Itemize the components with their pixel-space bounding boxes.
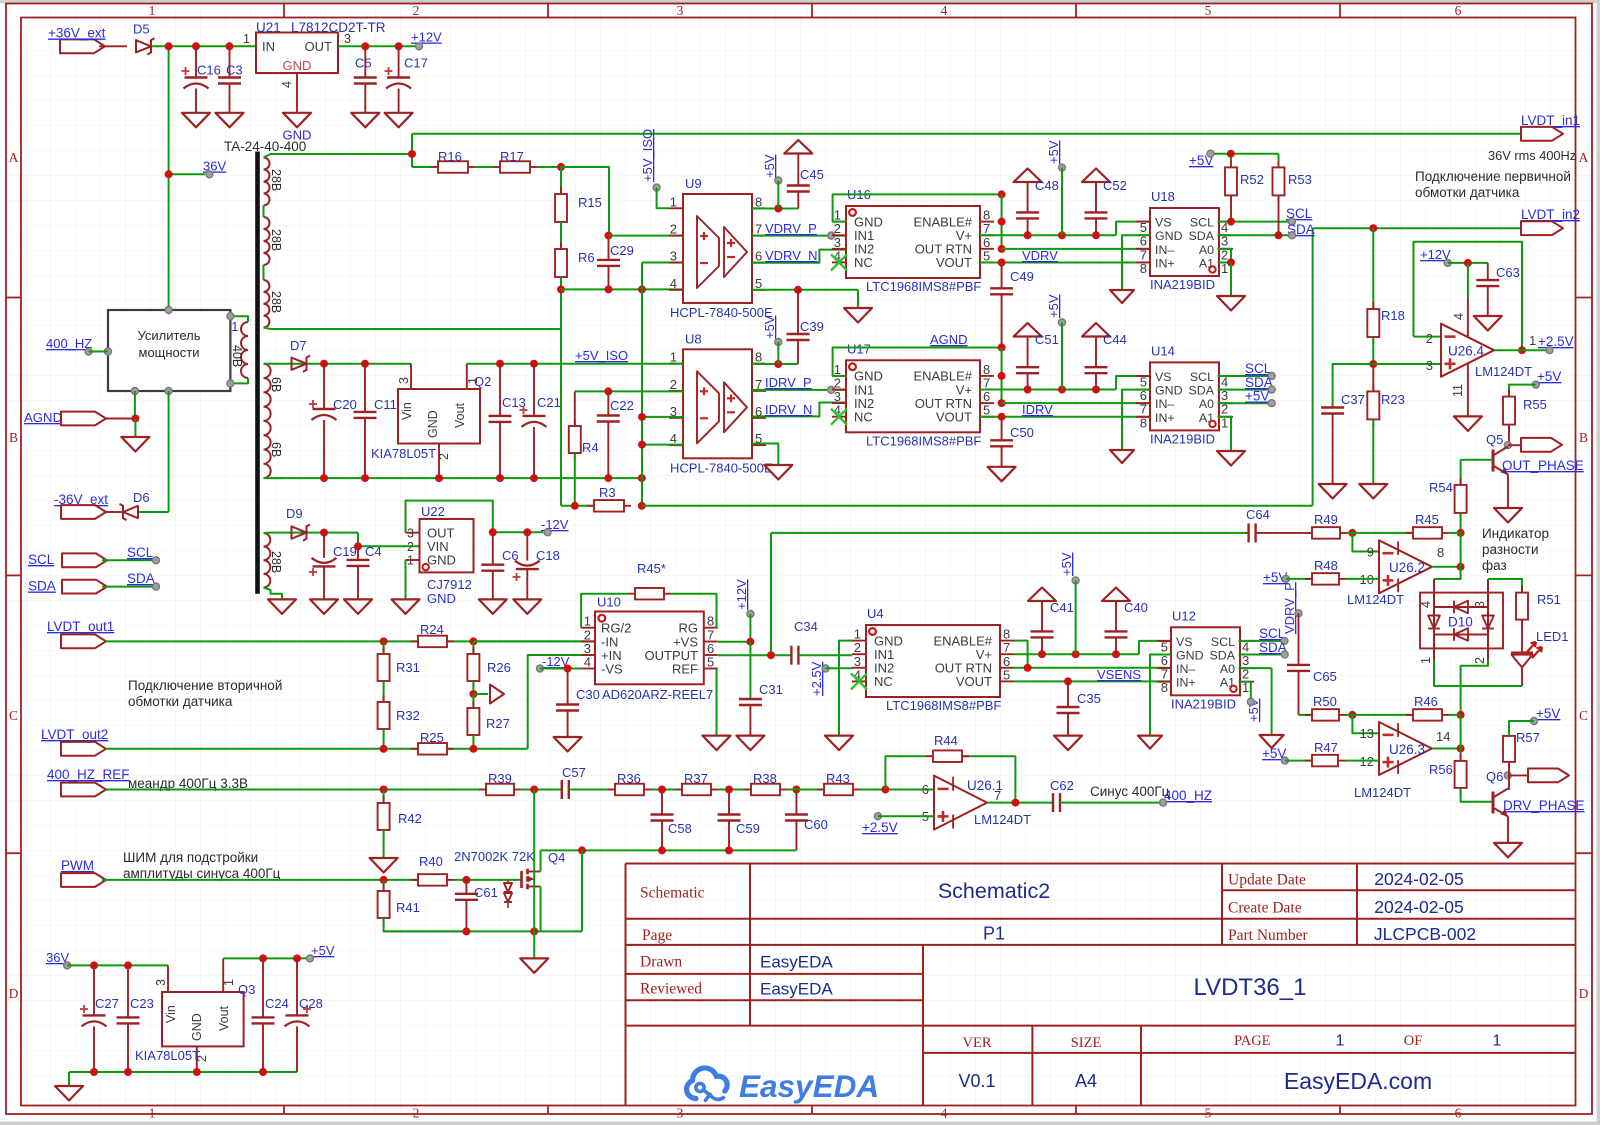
junction +VS <box>746 638 754 646</box>
wire R15 link <box>560 167 562 194</box>
junction C11 top <box>361 360 369 368</box>
svg-text:AGND: AGND <box>24 410 62 425</box>
wire Q4 source down <box>540 887 542 932</box>
ground Q6 <box>1494 843 1522 858</box>
svg-text:OUT: OUT <box>305 39 333 54</box>
svg-text:Vout: Vout <box>453 402 467 428</box>
junction R18 tap <box>1369 224 1377 232</box>
svg-text:U26.4: U26.4 <box>1448 344 1485 359</box>
svg-text:+5V_ISO: +5V_ISO <box>640 129 655 182</box>
junction C29 top <box>605 232 613 240</box>
resistor R57 <box>1508 729 1510 736</box>
svg-text:VS: VS <box>1176 635 1193 649</box>
resistor R38 <box>744 789 751 791</box>
wire U4 pin1 gnd <box>839 641 852 736</box>
svg-text:4: 4 <box>280 81 294 88</box>
resistor R52 <box>1230 160 1232 167</box>
wire -IN to U10 <box>473 640 595 642</box>
wire U14 GND to ground <box>1122 390 1150 450</box>
svg-text:D10: D10 <box>1448 615 1473 630</box>
svg-text:+36V_ext: +36V_ext <box>48 26 106 41</box>
svg-text:SDA: SDA <box>1189 229 1215 243</box>
wire U17 VOUT IDRV line <box>980 416 1150 418</box>
capacitor C4 <box>357 546 359 560</box>
ground under C17 <box>385 113 413 128</box>
wire R42 to ground <box>383 830 385 858</box>
junction R31 top <box>380 637 388 645</box>
svg-text:6В: 6В <box>269 442 283 457</box>
ground filter rail <box>520 958 548 973</box>
svg-text:Q3: Q3 <box>238 982 255 997</box>
svg-text:C17: C17 <box>404 56 428 71</box>
wire R4 bottom to R3 <box>574 453 576 506</box>
svg-text:SDA: SDA <box>1210 649 1236 663</box>
svg-text:KIA78L05T: KIA78L05T <box>371 446 436 461</box>
wire U21 pin4 to ground <box>296 73 298 113</box>
junction R6 bottom rail <box>557 285 565 293</box>
svg-text:Q6: Q6 <box>1486 769 1503 784</box>
junction C24 bottom <box>259 1068 267 1076</box>
svg-text:+12V: +12V <box>734 579 749 610</box>
svg-text:2: 2 <box>1426 331 1433 346</box>
wire U12 SDA <box>1239 654 1282 656</box>
wire winding1 top <box>264 154 413 158</box>
junction C59 top <box>725 786 733 794</box>
capacitor C28 <box>296 958 298 1015</box>
svg-text:C5: C5 <box>355 56 372 71</box>
junction +36V/D5 <box>165 42 173 50</box>
junction C20 bottom <box>320 474 328 482</box>
optocoupler U9 HCPL-7840-500E <box>683 194 752 303</box>
wire SDA <box>102 586 152 588</box>
svg-text:C31: C31 <box>759 682 783 697</box>
wire -12V to -VS <box>540 668 581 670</box>
svg-text:8: 8 <box>1140 261 1147 276</box>
ground U26.4 pin11 <box>1454 416 1482 431</box>
wire LVDT_in2 line <box>1313 227 1521 229</box>
svg-text:D7: D7 <box>290 338 307 353</box>
svg-text:R47: R47 <box>1314 740 1338 755</box>
svg-text:Vin: Vin <box>164 1005 178 1023</box>
svg-text:13: 13 <box>1360 726 1374 741</box>
ground under R42 <box>370 858 398 873</box>
wire R39 to C57 <box>521 789 562 791</box>
wire R46 to column <box>1449 714 1461 716</box>
svg-text:D6: D6 <box>133 490 150 505</box>
svg-text:2N7002K 72K: 2N7002K 72K <box>454 849 535 864</box>
junction C5 <box>361 42 369 50</box>
wire U12 GND to ground <box>1150 655 1171 736</box>
wire SCL <box>102 559 152 561</box>
svg-text:R39: R39 <box>488 771 512 786</box>
svg-text:U8: U8 <box>685 331 702 346</box>
wire V+ jog to U18 VS <box>1116 222 1150 236</box>
wire 6V bottom to rail <box>264 477 285 479</box>
wire +5V to U8 pin8 <box>777 342 779 364</box>
svg-text:Vout: Vout <box>217 1005 231 1031</box>
junction C16 <box>192 42 200 50</box>
wire R41 bottom to rail <box>384 918 467 931</box>
svg-text:разности: разности <box>1482 542 1539 557</box>
capacitor C22 <box>607 391 609 415</box>
wire R17 to node <box>537 166 561 168</box>
wire LVDT_in2 vertical <box>1312 228 1314 506</box>
winding 6V no.1 <box>264 364 271 421</box>
capacitor C37 <box>1321 406 1344 408</box>
wire U26.4 pin11 <box>1467 363 1469 416</box>
svg-text:C21: C21 <box>537 395 561 410</box>
wire mid to agnd arrow <box>473 693 488 695</box>
wire U14 A1 to ground <box>1218 417 1232 451</box>
capacitor C51 <box>1014 323 1042 337</box>
secondary winding 28V no.1 <box>264 158 270 206</box>
svg-text:R53: R53 <box>1288 172 1312 187</box>
svg-text:INA219BID: INA219BID <box>1171 696 1236 711</box>
svg-text:IN: IN <box>262 39 275 54</box>
junction sense column top <box>638 285 646 293</box>
svg-text:C: C <box>1579 708 1588 723</box>
svg-text:U17: U17 <box>847 341 871 356</box>
svg-text:C35: C35 <box>1077 691 1101 706</box>
svg-text:R17: R17 <box>500 149 524 164</box>
junction Q3 gnd <box>193 1068 201 1076</box>
svg-text:C29: C29 <box>610 243 634 258</box>
svg-text:5: 5 <box>1205 1106 1212 1121</box>
wire U8 pin6 IDRV_N <box>752 403 846 417</box>
wire U18 A0 jog <box>1218 249 1232 263</box>
junction C6 top <box>489 528 497 536</box>
capacitor C6 <box>492 532 494 564</box>
junction OUT RTN enable <box>1024 664 1032 672</box>
wire filter to R43 <box>787 789 824 791</box>
wire pin5 to ground <box>857 290 859 308</box>
resistor R53 <box>1278 160 1280 167</box>
ground under C37 <box>1319 484 1347 499</box>
svg-text:C58: C58 <box>668 821 692 836</box>
svg-text:OF: OF <box>1404 1033 1423 1049</box>
svg-text:C59: C59 <box>736 821 760 836</box>
junction R17 out <box>557 163 565 171</box>
wire U8 pin7 IDRV_P <box>752 389 846 391</box>
svg-text:C27: C27 <box>95 996 119 1011</box>
svg-text:28В: 28В <box>269 551 283 573</box>
wire Q3 Vout +5V rail <box>223 957 306 959</box>
wire D7 rail <box>284 363 411 365</box>
svg-text:R32: R32 <box>396 708 420 723</box>
svg-text:A0: A0 <box>1220 662 1235 676</box>
svg-text:R57: R57 <box>1516 730 1540 745</box>
svg-text:C34: C34 <box>794 619 818 634</box>
resistor R15 <box>560 187 562 194</box>
svg-text:+5V: +5V <box>762 154 777 178</box>
junction C51 bottom <box>1024 386 1032 394</box>
amplifier pin dots <box>165 307 172 314</box>
junction C58 bottom <box>658 846 666 854</box>
junction U17 pin6 <box>998 399 1006 407</box>
diode D5 <box>136 40 151 52</box>
svg-text:C52: C52 <box>1103 178 1127 193</box>
svg-text:14: 14 <box>1436 729 1450 744</box>
svg-text:2: 2 <box>437 453 451 460</box>
wire 28V4 bottom to ground <box>264 588 283 600</box>
resistor R55 <box>1508 390 1510 397</box>
wire R38 to R43 <box>787 789 824 791</box>
svg-text:3: 3 <box>397 377 411 384</box>
wire U4 VOUT VSENS <box>1014 680 1171 682</box>
svg-text:REF: REF <box>672 661 698 676</box>
svg-text:8: 8 <box>1140 415 1147 430</box>
wire comparator column <box>1460 715 1462 749</box>
svg-text:Vin: Vin <box>400 402 414 420</box>
svg-text:C39: C39 <box>800 319 824 334</box>
ground U18 gnd <box>1110 290 1134 303</box>
RMS converter U4 LTC1968IMS8#PBF <box>866 625 1000 697</box>
capacitor C20 <box>323 364 325 409</box>
junction R44 node <box>881 786 889 794</box>
RMS converter U16 LTC1968IMS8#PBF <box>846 206 980 278</box>
svg-text:A: A <box>1579 150 1589 165</box>
svg-text:Create Date: Create Date <box>1228 900 1302 917</box>
ground U9 pin5 <box>844 308 872 323</box>
svg-text:1: 1 <box>1493 1033 1502 1050</box>
svg-text:C3: C3 <box>226 63 243 78</box>
svg-text:R24: R24 <box>420 622 444 637</box>
svg-text:8: 8 <box>755 194 762 209</box>
protection zeners Q4 <box>504 883 512 892</box>
resistor R6 <box>560 242 562 249</box>
junction C28 top <box>293 954 301 962</box>
wire U17 V+ rail <box>980 389 1116 391</box>
svg-text:EasyEDA: EasyEDA <box>760 980 833 999</box>
capacitor C52 <box>1082 169 1110 183</box>
svg-text:R36: R36 <box>617 771 641 786</box>
svg-text:1: 1 <box>243 32 250 46</box>
wire R50-R46 <box>1346 714 1413 716</box>
wire LED to bridge pin1 <box>1521 667 1523 687</box>
wire D9 rail <box>284 532 358 534</box>
capacitor C64 <box>1245 532 1249 534</box>
wire +IN column <box>528 655 595 749</box>
svg-text:LVDT_out2: LVDT_out2 <box>41 727 108 742</box>
ground under C6 <box>479 599 507 614</box>
junction OUTPUT <box>767 651 775 659</box>
svg-text:VS: VS <box>1155 216 1172 230</box>
svg-text:R27: R27 <box>486 716 510 731</box>
junction C35 top <box>1064 677 1072 685</box>
svg-text:1: 1 <box>670 194 677 209</box>
svg-text:2: 2 <box>1473 657 1487 664</box>
svg-text:U26.2: U26.2 <box>1389 560 1425 575</box>
wire U26.4 feedback loop <box>1414 336 1442 338</box>
primary inductor L1 <box>230 316 248 322</box>
wire +5V to pin8 <box>777 181 779 209</box>
ground under C35 <box>1054 736 1082 751</box>
svg-text:C19: C19 <box>333 544 357 559</box>
junction U8 pin8 <box>774 360 782 368</box>
svg-text:C24: C24 <box>265 996 289 1011</box>
junction R25 right <box>469 745 477 753</box>
svg-text:SCL: SCL <box>1211 635 1235 649</box>
svg-text:+12V: +12V <box>411 30 442 45</box>
svg-text:4: 4 <box>941 1106 948 1121</box>
wire R56 to Q6 base <box>1461 789 1493 802</box>
svg-text:40В: 40В <box>230 345 244 367</box>
junction U26.2 out <box>1457 563 1465 571</box>
junction R42 top <box>380 786 388 794</box>
wire Q5 base <box>1461 459 1493 461</box>
ground under C16 <box>182 113 210 128</box>
svg-text:SCL: SCL <box>127 545 154 560</box>
instrumentation amp U10 AD620ARZ-REEL7 <box>595 612 704 685</box>
diode D6 <box>123 506 138 518</box>
svg-text:TA-24-40-400: TA-24-40-400 <box>224 139 306 154</box>
svg-text:U26.3: U26.3 <box>1389 742 1425 757</box>
junction R26/R27 mid <box>469 690 477 698</box>
wire U8 pin5 to ground <box>752 444 778 466</box>
svg-text:4: 4 <box>584 655 591 670</box>
ground U14 gnd <box>1110 450 1134 463</box>
svg-text:Schematic2: Schematic2 <box>938 879 1050 903</box>
resistor R49 <box>1305 532 1312 534</box>
svg-text:2: 2 <box>407 540 414 554</box>
svg-text:INA219BID: INA219BID <box>1150 277 1215 292</box>
junction C20 top <box>320 360 328 368</box>
wire U17 OUT RTN to U14 <box>1002 402 1150 404</box>
wire U18 SDA <box>1218 234 1289 236</box>
svg-text:RG/2: RG/2 <box>601 621 631 636</box>
diode D9 <box>292 526 307 538</box>
wire R6 bottom <box>560 277 562 289</box>
wire U4 OUT RTN to U12 <box>1014 667 1171 669</box>
svg-text:B: B <box>1579 430 1588 445</box>
svg-text:INA219BID: INA219BID <box>1150 431 1215 446</box>
svg-text:+5V: +5V <box>1537 369 1561 384</box>
op-amp U26.3 LM124DT <box>1379 722 1432 775</box>
svg-text:+2.5V: +2.5V <box>1538 334 1574 349</box>
svg-text:D5: D5 <box>133 22 150 37</box>
svg-text:R48: R48 <box>1314 558 1338 573</box>
ground U10 REF <box>703 736 731 751</box>
svg-text:VSENS: VSENS <box>1097 667 1141 682</box>
wire U8 pin1 +5V_ISO <box>669 363 683 365</box>
svg-text:U22: U22 <box>421 504 445 519</box>
junction C50 top <box>998 413 1006 421</box>
svg-text:A0: A0 <box>1199 243 1214 257</box>
svg-text:400_HZ: 400_HZ <box>46 336 92 351</box>
svg-text:C37: C37 <box>1341 392 1365 407</box>
current monitor U14 INA219BID <box>1150 362 1219 430</box>
wire U9 pin7 VDRV_P <box>752 235 846 237</box>
resistor R43 <box>817 789 824 791</box>
wire C34 to U4 <box>798 654 852 656</box>
svg-text:+5V: +5V <box>311 943 335 958</box>
junction C11 bottom <box>361 474 369 482</box>
svg-text:ШИМ для подстройки: ШИМ для подстройки <box>123 850 258 865</box>
wire Q3 ground rail <box>69 1071 297 1073</box>
svg-text:GND: GND <box>426 410 440 438</box>
svg-text:RG: RG <box>679 621 699 636</box>
diode bridge D10 <box>1420 593 1503 649</box>
svg-text:обмотки датчика: обмотки датчика <box>128 694 233 709</box>
resistor R24 <box>411 640 418 642</box>
capacitor C62 <box>1052 793 1054 812</box>
junction R41 top <box>380 876 388 884</box>
svg-text:1: 1 <box>1336 1033 1345 1050</box>
svg-text:C50: C50 <box>1010 425 1034 440</box>
svg-text:R51: R51 <box>1537 592 1561 607</box>
resistor R48 <box>1305 578 1312 580</box>
svg-text:EasyEDA.com: EasyEDA.com <box>1284 1068 1432 1094</box>
wire R16-R17 <box>475 166 493 168</box>
ground under C30 <box>554 737 582 752</box>
resistor R44 <box>926 755 933 757</box>
svg-text:R6: R6 <box>578 250 595 265</box>
svg-text:Q2: Q2 <box>474 374 491 389</box>
wire long sense to LVDT_in2 column <box>642 505 1313 507</box>
svg-text:C64: C64 <box>1246 507 1270 522</box>
svg-text:2024-02-05: 2024-02-05 <box>1374 869 1464 889</box>
wire U16 OUT RTN to U18 <box>1002 248 1150 250</box>
svg-text:R41: R41 <box>396 900 420 915</box>
wire R51 to LED <box>1521 620 1523 652</box>
ground U22 <box>392 599 420 614</box>
svg-text:2024-02-05: 2024-02-05 <box>1374 897 1464 917</box>
junction C21 top <box>530 360 538 368</box>
svg-text:6В: 6В <box>269 377 283 392</box>
resistor R36 <box>608 789 615 791</box>
wire V+ jog to U12 VS <box>1139 641 1171 654</box>
capacitor C49 <box>1001 263 1003 289</box>
wire Q4 drain up <box>540 850 542 871</box>
wire sense mid rail <box>561 288 683 290</box>
ground under C4 <box>344 599 372 614</box>
capacitor C30 <box>567 669 569 705</box>
junction C39 top <box>794 286 802 294</box>
wire R57 to Q6 collector <box>1508 763 1510 790</box>
wire filter ground rail <box>541 849 797 851</box>
svg-text:R54: R54 <box>1429 480 1453 495</box>
svg-text:LTC1968IMS8#PBF: LTC1968IMS8#PBF <box>866 433 981 448</box>
resistor R4 <box>574 391 576 426</box>
svg-text:400_HZ_REF: 400_HZ_REF <box>47 767 130 782</box>
resistor R41 <box>383 880 385 891</box>
wire +12V to +VS <box>749 614 751 642</box>
svg-text:R40: R40 <box>419 854 443 869</box>
svg-text:8: 8 <box>1437 545 1444 560</box>
svg-text:SCL: SCL <box>1245 361 1272 376</box>
svg-text:SIZE: SIZE <box>1071 1035 1102 1051</box>
svg-text:4: 4 <box>670 276 677 291</box>
resistor R23 <box>1372 364 1374 391</box>
wire U14 SDA <box>1218 389 1269 391</box>
wire PWM line <box>102 879 418 881</box>
svg-text:C23: C23 <box>130 996 154 1011</box>
wire R3 row <box>561 505 594 507</box>
svg-text:9: 9 <box>1367 545 1374 560</box>
capacitor C40 <box>1102 588 1130 602</box>
svg-text:C30: C30 <box>576 687 600 702</box>
svg-text:V0.1: V0.1 <box>958 1071 995 1091</box>
svg-text:C11: C11 <box>374 397 397 412</box>
capacitor C31 <box>739 698 762 700</box>
wire bottom rail <box>384 930 582 932</box>
wire vertical +36V to amplifier <box>168 46 170 310</box>
resistor R39 <box>479 789 486 791</box>
svg-text:IDRV: IDRV <box>1022 402 1053 417</box>
wire C62 to 400_HZ <box>1060 802 1159 804</box>
wire U16 VOUT VDRV line <box>980 262 1150 264</box>
wire bridge pin2 down <box>1461 660 1488 715</box>
